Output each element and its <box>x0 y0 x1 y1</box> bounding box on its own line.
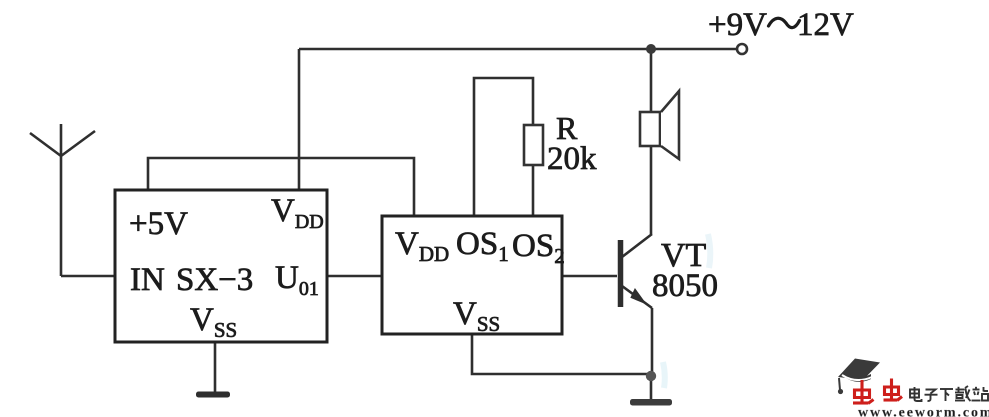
wire: rail down to U1 VDD pin <box>298 49 301 190</box>
watermark: red character chong #2 <box>884 379 903 401</box>
faint scan smudge <box>708 234 710 268</box>
supply terminal circle <box>737 44 747 54</box>
ground (right, emitter) <box>630 399 672 406</box>
ground (left, U1 VSS) <box>196 392 230 398</box>
svg-text:VSS: VSS <box>190 302 237 342</box>
wire: U1 +5V pin to U2 VDD pin <box>148 158 414 216</box>
svg-text:+5V: +5V <box>129 206 188 242</box>
watermark: text dian-zi-xia-zai-zhan <box>910 386 988 401</box>
svg-text:12V: 12V <box>797 7 854 43</box>
watermark: graduation cap <box>838 359 880 395</box>
junction dot on supply rail <box>646 44 656 54</box>
wire: rail tap down through speaker to collector <box>650 49 653 234</box>
transistor emitter arrow <box>631 289 646 304</box>
IC U2 box <box>382 216 562 334</box>
antenna <box>30 124 95 276</box>
wire: U01 output to U2 input <box>327 275 382 278</box>
transistor Q1 <box>621 234 653 308</box>
svg-text:VDD: VDD <box>271 193 324 233</box>
svg-text:8050: 8050 <box>652 268 718 304</box>
watermark: red character chong #1 <box>853 380 874 404</box>
tilde of supply label <box>769 18 800 27</box>
svg-text:www.eeworm.com: www.eeworm.com <box>858 406 989 417</box>
svg-text:VSS: VSS <box>453 296 500 336</box>
svg-text:20k: 20k <box>547 141 597 177</box>
char zi <box>926 390 936 394</box>
char xia <box>940 388 953 390</box>
wire: junction to right ground <box>650 376 653 399</box>
speaker <box>640 91 679 159</box>
resistor R <box>524 125 543 165</box>
char dian <box>910 390 919 398</box>
wire: emitter down to bottom rail <box>651 308 654 376</box>
wire: U2 output to transistor base <box>562 275 617 278</box>
wire: U1 VSS to left ground <box>214 342 217 392</box>
svg-text:U01: U01 <box>275 260 319 300</box>
junction dot at emitter/ground <box>646 371 656 381</box>
char zhan <box>973 389 980 391</box>
char zai <box>956 389 965 391</box>
wire: U2 VSS to bottom rail <box>472 334 651 374</box>
svg-text:OS1: OS1 <box>456 226 509 266</box>
wire: +V supply rail <box>299 48 736 51</box>
wire: antenna feed to IN pin <box>61 275 115 278</box>
svg-text:SX−3: SX−3 <box>176 262 253 298</box>
svg-text:VDD: VDD <box>395 226 449 266</box>
svg-text:+9V: +9V <box>708 7 767 43</box>
wire: OS1 loop to resistor top <box>474 78 533 216</box>
svg-text:OS2: OS2 <box>512 228 565 268</box>
IC U1 SX-3 box <box>115 190 327 342</box>
wire: resistor bottom to OS2 pin <box>532 165 535 216</box>
svg-text:IN: IN <box>130 262 165 298</box>
